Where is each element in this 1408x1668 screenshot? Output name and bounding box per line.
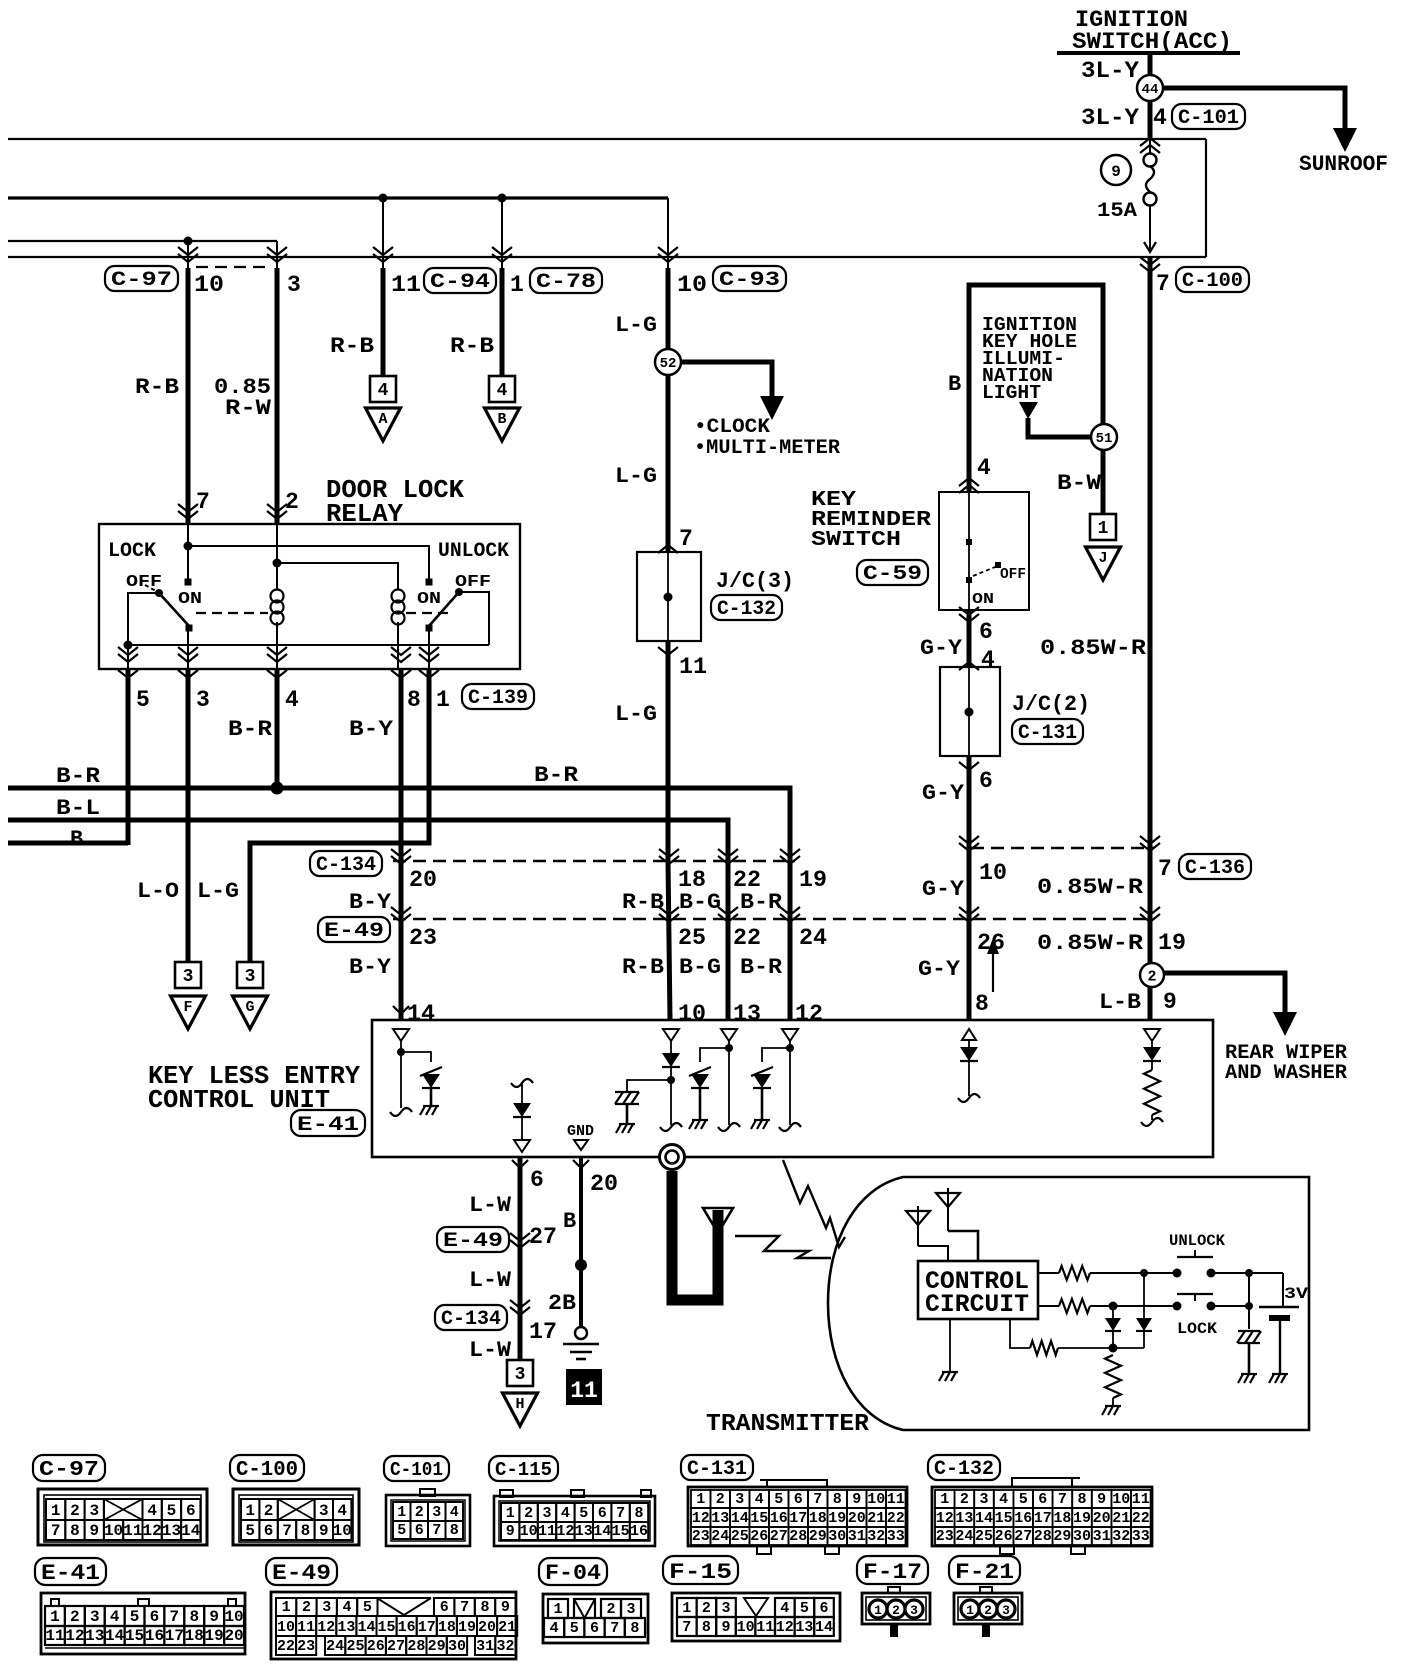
svg-text:13: 13 — [575, 1523, 593, 1540]
zener pin13 ground lead — [699, 1088, 702, 1120]
svg-text:R-B: R-B — [450, 334, 494, 359]
diode pin10 — [670, 1041, 672, 1053]
svg-text:29: 29 — [1053, 1528, 1071, 1545]
svg-text:7: 7 — [1156, 271, 1170, 297]
svg-text:B: B — [497, 411, 506, 428]
splice 2 rear wiper — [1140, 963, 1164, 987]
arrows out of key reminder — [959, 614, 979, 622]
svg-text:1: 1 — [553, 1601, 562, 1618]
connector label C-59 — [857, 560, 928, 585]
svg-text:7: 7 — [170, 1608, 180, 1626]
svg-text:LOCK: LOCK — [1177, 1320, 1217, 1338]
svg-text:23: 23 — [692, 1528, 710, 1545]
wire pin8 B-Y down — [399, 669, 404, 1020]
svg-text:3: 3 — [1002, 1603, 1010, 1618]
svg-text:7: 7 — [460, 1599, 469, 1616]
svg-text:20: 20 — [224, 1627, 243, 1645]
svg-text:19: 19 — [205, 1627, 224, 1645]
svg-text:5: 5 — [245, 1522, 255, 1540]
svg-text:4: 4 — [110, 1608, 120, 1626]
svg-text:28: 28 — [1034, 1528, 1052, 1545]
svg-text:2: 2 — [524, 1505, 533, 1522]
relay pin chevrons below box — [118, 670, 138, 678]
svg-text:2: 2 — [1147, 968, 1156, 985]
svg-text:OFF: OFF — [126, 573, 162, 592]
svg-text:5: 5 — [130, 1608, 140, 1626]
svg-text:4: 4 — [337, 1502, 347, 1520]
svg-text:6: 6 — [794, 1491, 803, 1508]
svg-text:3: 3 — [319, 1502, 329, 1520]
tx antenna 1 — [917, 1206, 919, 1246]
svg-text:9: 9 — [721, 1619, 730, 1636]
svg-text:22: 22 — [1132, 1510, 1150, 1527]
wire 1 drop — [501, 198, 503, 268]
wire 11 drop — [382, 198, 384, 268]
connector label C-139 — [462, 684, 534, 709]
svg-text:6: 6 — [530, 1167, 544, 1193]
svg-text:CIRCUIT: CIRCUIT — [925, 1290, 1029, 1319]
svg-text:L-G: L-G — [615, 464, 657, 489]
svg-text:7: 7 — [196, 489, 210, 515]
curl pin10 — [660, 1123, 682, 1131]
svg-text:13: 13 — [162, 1522, 181, 1540]
relay pin3 exit arrows — [178, 654, 198, 662]
svg-text:C-134: C-134 — [316, 854, 376, 877]
svg-text:7: 7 — [282, 1522, 292, 1540]
ground symbol B wire — [563, 1343, 599, 1346]
svg-text:22: 22 — [733, 925, 761, 951]
svg-text:7: 7 — [610, 1620, 619, 1637]
svg-text:14: 14 — [105, 1627, 125, 1645]
svg-text:F-17: F-17 — [863, 1560, 922, 1585]
tx resistor lower — [1059, 1299, 1090, 1313]
svg-text:14: 14 — [593, 1523, 611, 1540]
svg-text:3: 3 — [735, 1491, 744, 1508]
svg-text:22: 22 — [887, 1510, 905, 1527]
svg-text:3: 3 — [245, 967, 256, 987]
connector arrow C-100 — [1140, 264, 1160, 272]
svg-text:2: 2 — [285, 489, 299, 515]
svg-text:21: 21 — [1112, 1510, 1130, 1527]
arrow into C-100 — [1144, 242, 1156, 252]
svg-text:31: 31 — [1093, 1528, 1111, 1545]
terminal triangle F — [171, 996, 206, 1029]
svg-text:16: 16 — [145, 1627, 164, 1645]
terminal triangle B — [485, 408, 520, 441]
svg-text:18: 18 — [438, 1619, 456, 1636]
wire 3L-Y from ignition switch — [1148, 55, 1153, 139]
ground in unit 2 — [692, 1119, 708, 1121]
wire 0.85R-W to relay pin2 — [275, 268, 280, 524]
svg-text:25: 25 — [678, 925, 706, 951]
svg-text:C-132: C-132 — [717, 598, 776, 621]
diode pin8 — [968, 1040, 970, 1047]
junction dot wire1 y198 — [498, 194, 507, 203]
svg-text:6: 6 — [598, 1505, 607, 1522]
connector pinout F-04 — [539, 1558, 607, 1585]
svg-text:11: 11 — [123, 1522, 142, 1540]
arrows E-49 pin19 — [1140, 914, 1160, 922]
svg-text:18: 18 — [809, 1510, 827, 1527]
unit pin14 entry — [393, 1006, 409, 1014]
tx antenna 2 — [947, 1188, 949, 1231]
svg-text:9: 9 — [501, 1599, 510, 1616]
wire pin4 to B-R bus — [275, 669, 280, 788]
wire L-G below JC3 — [666, 641, 671, 861]
svg-text:13: 13 — [85, 1627, 104, 1645]
relay pin4 exit arrows — [267, 654, 287, 662]
svg-text:2: 2 — [702, 1600, 711, 1617]
svg-text:6: 6 — [150, 1608, 160, 1626]
connector pinout E-49 — [266, 1558, 337, 1585]
unit pin20 output triangle — [574, 1140, 588, 1150]
svg-text:11: 11 — [756, 1619, 774, 1636]
arrows E-49 pin24 — [780, 914, 800, 922]
right OFF link — [459, 592, 489, 645]
wire pin3 L-O down — [186, 669, 191, 962]
tx lower rail — [1038, 1305, 1059, 1307]
right switch ON contact — [426, 579, 433, 586]
junction B-R/pin4 — [271, 782, 284, 795]
key reminder internal wire — [968, 492, 970, 540]
svg-text:28: 28 — [789, 1528, 807, 1545]
svg-text:5: 5 — [579, 1505, 588, 1522]
splice 51 — [1091, 424, 1117, 450]
svg-text:23: 23 — [409, 925, 437, 951]
svg-text:L-G: L-G — [615, 313, 657, 338]
left coil — [276, 585, 278, 589]
svg-text:14: 14 — [815, 1619, 833, 1636]
svg-text:C-101: C-101 — [1178, 107, 1239, 130]
left switch OFF contact — [155, 589, 163, 597]
svg-text:C-100: C-100 — [236, 1459, 298, 1482]
unit pin14 net — [400, 1041, 402, 1108]
svg-text:22: 22 — [277, 1638, 295, 1655]
wire B loop top — [969, 285, 1103, 492]
svg-text:1: 1 — [51, 1502, 61, 1520]
svg-text:3L-Y: 3L-Y — [1081, 105, 1139, 131]
junction dot wire10 C-97 — [184, 237, 193, 246]
wire L-W — [518, 1157, 523, 1360]
left switch OFF dash — [145, 585, 158, 592]
relay bottom rail junction — [124, 641, 133, 650]
svg-text:13: 13 — [337, 1619, 355, 1636]
svg-text:20: 20 — [590, 1171, 618, 1197]
arrows C-134 pin17 — [510, 1307, 530, 1315]
svg-text:11: 11 — [1132, 1491, 1150, 1508]
svg-text:B-L: B-L — [56, 796, 100, 821]
arrows C-134 pin20 — [391, 856, 411, 864]
right coil — [397, 585, 399, 589]
svg-text:TRANSMITTER: TRANSMITTER — [706, 1411, 870, 1438]
pin9 lead — [1151, 1115, 1153, 1120]
svg-text:2: 2 — [716, 1491, 725, 1508]
ground terminal circle — [575, 1327, 587, 1339]
svg-text:2: 2 — [70, 1608, 80, 1626]
relay pin2 entry arrows — [267, 511, 287, 519]
left mech linkage dashed — [196, 612, 268, 614]
resistor pin9 — [1144, 1070, 1160, 1115]
cap777 pin10 branch — [627, 1080, 671, 1092]
left switch ON contact — [185, 579, 192, 586]
svg-text:4: 4 — [343, 1599, 352, 1616]
svg-text:C-78: C-78 — [536, 271, 596, 294]
connector label C-94 — [424, 268, 496, 293]
svg-text:B-Y: B-Y — [349, 717, 394, 742]
svg-text:H: H — [515, 1396, 524, 1413]
left switch arm base — [186, 625, 193, 632]
tx diode 1 — [1112, 1306, 1114, 1318]
svg-text:C-132: C-132 — [934, 1458, 994, 1481]
svg-text:3: 3 — [979, 1491, 988, 1508]
svg-text:17: 17 — [1034, 1510, 1052, 1527]
svg-text:C-131: C-131 — [1018, 722, 1077, 745]
svg-text:12: 12 — [143, 1522, 162, 1540]
svg-text:7: 7 — [616, 1505, 625, 1522]
svg-text:C-139: C-139 — [468, 687, 528, 710]
connector label E-49 lw — [437, 1227, 509, 1252]
svg-text:F-04: F-04 — [545, 1561, 601, 1586]
svg-text:8: 8 — [407, 687, 421, 713]
unit pin6 exit — [512, 1160, 528, 1168]
svg-text:E-41: E-41 — [41, 1561, 100, 1586]
svg-text:52: 52 — [660, 356, 677, 372]
wire R-B to terminal A — [381, 268, 386, 376]
svg-text:R-W: R-W — [225, 396, 272, 421]
svg-text:8: 8 — [189, 1608, 199, 1626]
svg-text:7: 7 — [432, 1522, 441, 1539]
svg-text:3: 3 — [542, 1505, 551, 1522]
connector label C-132 jc — [711, 595, 782, 620]
splice 52 — [655, 349, 681, 375]
svg-text:1: 1 — [282, 1599, 291, 1616]
wire 0.85W-R main — [1148, 257, 1153, 1020]
unit pin10 input triangle — [663, 1029, 679, 1041]
svg-text:10: 10 — [104, 1522, 123, 1540]
svg-text:13: 13 — [795, 1619, 813, 1636]
svg-text:18: 18 — [1053, 1510, 1071, 1527]
svg-text:R-B: R-B — [622, 955, 664, 980]
svg-text:51: 51 — [1096, 431, 1113, 447]
svg-text:32: 32 — [867, 1528, 885, 1545]
svg-text:G-Y: G-Y — [922, 877, 965, 902]
right switch OFF contact — [455, 588, 463, 596]
svg-text:1: 1 — [682, 1600, 691, 1617]
svg-text:17: 17 — [529, 1319, 557, 1345]
svg-text:3: 3 — [721, 1600, 730, 1617]
svg-text:E-49: E-49 — [272, 1561, 331, 1586]
control unit box — [372, 1020, 1213, 1157]
right switch arm base — [426, 625, 433, 632]
svg-text:AND WASHER: AND WASHER — [1225, 1062, 1347, 1085]
svg-text:C-101: C-101 — [390, 1459, 443, 1481]
svg-text:14: 14 — [357, 1619, 375, 1636]
junction block J/C(3) — [637, 552, 701, 641]
tx upper rail 2 — [1090, 1272, 1177, 1274]
svg-text:9: 9 — [1163, 989, 1177, 1015]
svg-text:16: 16 — [630, 1523, 648, 1540]
svg-text:2B: 2B — [548, 1291, 576, 1316]
svg-text:5: 5 — [774, 1491, 783, 1508]
terminal box 3 (F) — [175, 962, 201, 988]
wire pin1 down — [250, 669, 429, 962]
svg-text:B-R: B-R — [534, 763, 579, 788]
svg-text:7: 7 — [682, 1619, 691, 1636]
door lock relay box — [99, 524, 520, 669]
receiver antenna symbol — [703, 1208, 733, 1233]
svg-text:24: 24 — [955, 1528, 973, 1545]
arrows C-136 pin7 — [1140, 843, 1160, 851]
connector pinout F-21 — [949, 1556, 1020, 1584]
tx upper rail 3 — [1211, 1272, 1283, 1274]
svg-text:3: 3 — [910, 1603, 918, 1618]
corner wire L-G from y198 — [667, 198, 669, 268]
svg-text:11: 11 — [887, 1491, 905, 1508]
svg-text:6: 6 — [979, 768, 993, 794]
wire R-B to terminal B — [500, 268, 505, 376]
svg-text:5: 5 — [570, 1620, 579, 1637]
svg-text:F-21: F-21 — [955, 1560, 1014, 1585]
svg-text:C-100: C-100 — [1182, 270, 1243, 293]
svg-text:4: 4 — [999, 1491, 1008, 1508]
svg-text:4: 4 — [1153, 105, 1167, 131]
svg-text:G-Y: G-Y — [920, 636, 963, 661]
svg-text:21: 21 — [867, 1510, 885, 1527]
svg-text:C-97: C-97 — [39, 1459, 99, 1482]
receiver antenna heavy lead — [672, 1171, 718, 1300]
svg-text:3: 3 — [90, 1608, 100, 1626]
svg-text:4: 4 — [981, 647, 995, 673]
wire R-B col (L-G continuation) — [668, 861, 670, 1020]
svg-text:30: 30 — [1073, 1528, 1091, 1545]
svg-text:44: 44 — [1142, 82, 1159, 98]
unit pin6 output triangle — [514, 1140, 530, 1152]
svg-text:3L-Y: 3L-Y — [1081, 58, 1139, 84]
svg-text:10: 10 — [737, 1619, 755, 1636]
svg-text:2: 2 — [302, 1599, 311, 1616]
svg-text:6: 6 — [186, 1502, 196, 1520]
svg-text:J: J — [1098, 550, 1107, 567]
svg-text:3: 3 — [196, 687, 210, 713]
bus B-L — [8, 820, 728, 1020]
svg-text:5: 5 — [800, 1600, 809, 1617]
svg-text:13: 13 — [733, 1001, 761, 1027]
svg-text:16: 16 — [398, 1619, 416, 1636]
terminal box 3 (G) — [237, 962, 263, 988]
svg-text:19: 19 — [828, 1510, 846, 1527]
relay bottom rail — [128, 644, 489, 646]
svg-text:L-O: L-O — [137, 879, 179, 904]
key reminder switch box — [939, 492, 1029, 610]
svg-text:4: 4 — [977, 455, 991, 481]
wire 10 to C-97 — [187, 241, 189, 268]
unit pin8 input triangle up — [962, 1029, 976, 1040]
connector pinout E-41 — [35, 1558, 106, 1585]
connector label C-101 — [1172, 104, 1245, 129]
svg-text:F-15: F-15 — [669, 1560, 732, 1585]
svg-text:SUNROOF: SUNROOF — [1299, 152, 1388, 177]
svg-text:4: 4 — [561, 1505, 570, 1522]
transmitter bubble — [828, 1177, 1309, 1430]
connector arrows C-97 pin3 — [267, 254, 287, 262]
svg-text:12: 12 — [65, 1627, 84, 1645]
svg-text:12: 12 — [936, 1510, 954, 1527]
left switch arm — [159, 593, 189, 626]
arrow out of JC3 — [658, 647, 678, 655]
svg-text:19: 19 — [799, 867, 827, 893]
left switch wire to pin3 — [187, 628, 189, 669]
svg-text:4: 4 — [755, 1491, 764, 1508]
svg-text:32: 32 — [1112, 1528, 1130, 1545]
terminal box 4 (B) — [489, 376, 515, 402]
svg-text:14: 14 — [407, 1001, 435, 1027]
fuse 9 15A — [1144, 154, 1157, 167]
svg-text:1: 1 — [436, 687, 450, 713]
arrows E-49 pin23 — [391, 914, 411, 922]
relay junction pin7 — [184, 542, 193, 551]
wire to clock/multimeter — [681, 362, 772, 398]
svg-text:UNLOCK: UNLOCK — [1169, 1232, 1225, 1250]
svg-text:25: 25 — [731, 1528, 749, 1545]
svg-text:15: 15 — [995, 1510, 1013, 1527]
cc ground lead left — [949, 1319, 951, 1372]
svg-text:33: 33 — [1132, 1528, 1150, 1545]
curl pin9 — [1141, 1118, 1163, 1126]
junction dot B wire — [575, 1259, 587, 1271]
left OFF to bottom rail — [128, 593, 159, 645]
wire to sunroof — [1162, 88, 1345, 132]
connector pinout C-132 — [928, 1455, 1000, 1480]
junction dot wire11 y198 — [379, 194, 388, 203]
relay pin1 exit arrows — [419, 654, 439, 662]
svg-text:B: B — [948, 372, 961, 397]
fuse number circle 9 — [1101, 155, 1131, 185]
svg-text:11: 11 — [570, 1378, 598, 1404]
svg-text:15: 15 — [125, 1627, 144, 1645]
terminal box 4 (A) — [370, 376, 396, 402]
svg-text:14: 14 — [731, 1510, 749, 1527]
terminal triangle H — [503, 1393, 538, 1426]
svg-text:6: 6 — [1038, 1491, 1047, 1508]
arrow into JC2 — [959, 662, 979, 670]
svg-text:15A: 15A — [1097, 200, 1137, 223]
tx lower rail 3 — [1211, 1305, 1249, 1307]
connector label E-41 — [291, 1110, 365, 1136]
svg-text:10: 10 — [194, 272, 224, 298]
svg-text:L-G: L-G — [197, 879, 239, 904]
svg-text:2: 2 — [70, 1502, 80, 1520]
bus B-R — [8, 788, 790, 1020]
svg-text:9: 9 — [506, 1523, 515, 1540]
tx resistor 4 vertical — [1105, 1355, 1121, 1398]
svg-text:14: 14 — [181, 1522, 201, 1540]
dashed connector link C-97 — [196, 266, 270, 268]
svg-text:9: 9 — [89, 1522, 99, 1540]
svg-text:24: 24 — [711, 1528, 729, 1545]
svg-text:3: 3 — [183, 967, 194, 987]
svg-text:6: 6 — [979, 619, 993, 645]
tx resistor upper — [1059, 1266, 1090, 1280]
svg-text:17: 17 — [165, 1627, 184, 1645]
svg-text:13: 13 — [711, 1510, 729, 1527]
unit pin12 input triangle — [782, 1029, 798, 1041]
svg-text:5: 5 — [397, 1522, 406, 1539]
svg-text:C-134: C-134 — [441, 1308, 501, 1331]
svg-text:27: 27 — [387, 1638, 405, 1655]
svg-text:LIGHT: LIGHT — [982, 382, 1041, 404]
key reminder OFF dashed — [973, 567, 995, 576]
relay pin8 exit arrows — [391, 654, 411, 662]
